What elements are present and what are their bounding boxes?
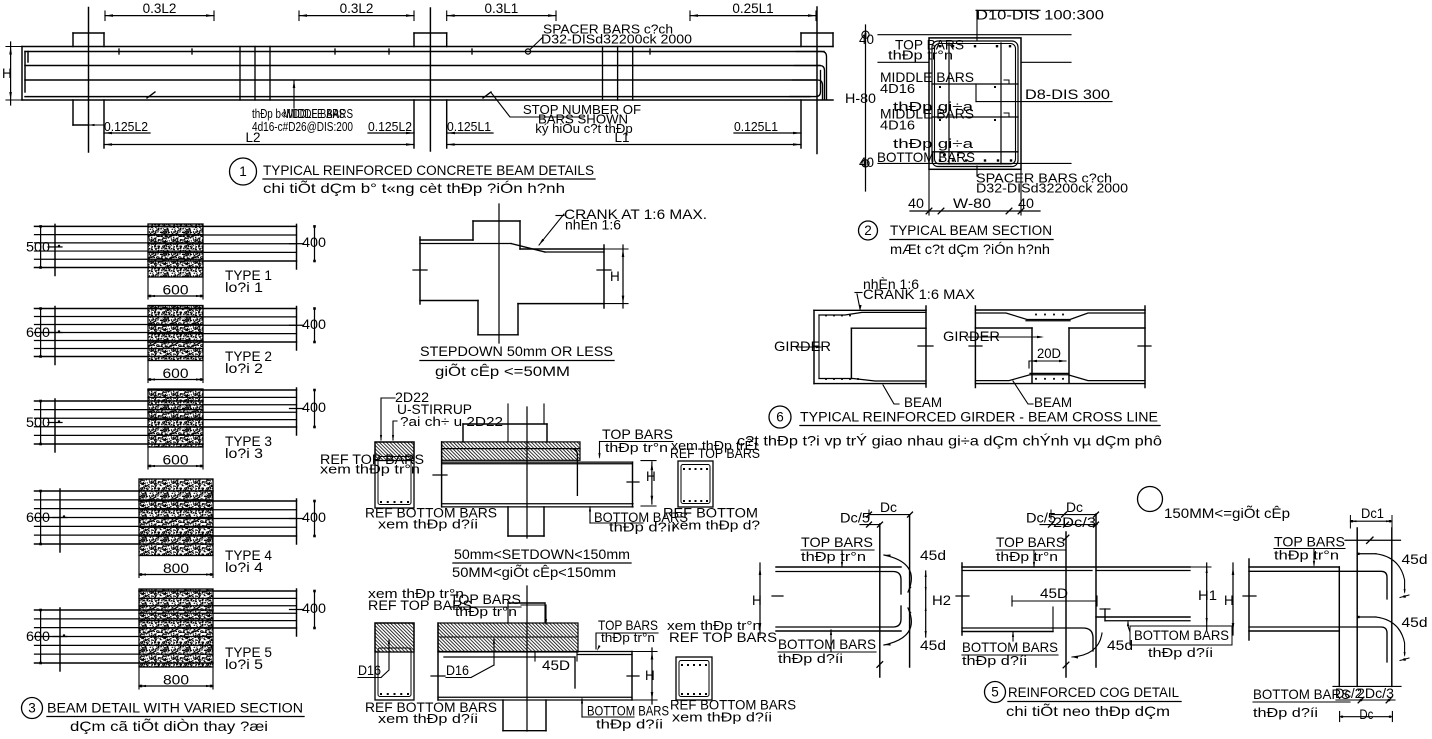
- svg-text:thÐp d?íi: thÐp d?íi: [609, 520, 675, 535]
- svg-text:Dc/5: Dc/5: [1026, 511, 1056, 526]
- svg-text:0.25L1: 0.25L1: [732, 1, 773, 16]
- svg-text:thÐp d?íi: thÐp d?íi: [962, 653, 1027, 668]
- svg-text:0.125L2: 0.125L2: [104, 119, 148, 134]
- svg-text:D32-DISd32200ck 2000: D32-DISd32200ck 2000: [541, 32, 692, 47]
- svg-text:600: 600: [26, 510, 50, 525]
- svg-text:0.3L2: 0.3L2: [143, 1, 177, 16]
- svg-text:2: 2: [864, 223, 872, 238]
- svg-text:BOTTOM BARS: BOTTOM BARS: [877, 150, 975, 165]
- svg-text:BEAM: BEAM: [904, 395, 942, 410]
- svg-text:Dc/5: Dc/5: [840, 511, 870, 526]
- svg-text:thÐp gi÷a: thÐp gi÷a: [893, 136, 974, 151]
- svg-text:thÐp tr°n: thÐp tr°n: [888, 48, 953, 63]
- svg-text:TYPICAL REINFORCED CONCRETE BE: TYPICAL REINFORCED CONCRETE BEAM DETAILS: [263, 163, 594, 179]
- svg-text:Dc: Dc: [1359, 707, 1373, 722]
- svg-text:4D16: 4D16: [880, 81, 915, 96]
- svg-text:4D16: 4D16: [880, 118, 915, 133]
- svg-text:2Dc/3: 2Dc/3: [1053, 515, 1096, 530]
- svg-text:xem thÐp d?: xem thÐp d?: [672, 518, 760, 533]
- svg-text:500: 500: [26, 415, 50, 430]
- svg-text:800: 800: [163, 561, 189, 576]
- svg-text:thÐp d?íi: thÐp d?íi: [596, 717, 663, 732]
- svg-text:lo?i 5: lo?i 5: [225, 657, 263, 672]
- svg-text:H: H: [752, 593, 762, 608]
- svg-text:Dc1: Dc1: [1361, 506, 1384, 521]
- svg-text:6: 6: [776, 410, 784, 425]
- svg-text:H2: H2: [932, 593, 951, 608]
- svg-text:600: 600: [163, 453, 189, 468]
- svg-text:400: 400: [302, 317, 326, 332]
- svg-text:400: 400: [302, 235, 326, 250]
- svg-text:STEPDOWN 50mm OR LESS: STEPDOWN 50mm OR LESS: [420, 344, 613, 360]
- svg-text:5: 5: [991, 685, 999, 700]
- svg-text:45D: 45D: [1040, 586, 1068, 601]
- svg-text:D8-DIS 300: D8-DIS 300: [1025, 87, 1110, 102]
- svg-text:3: 3: [28, 701, 36, 716]
- svg-text:BOTTOM BARS: BOTTOM BARS: [778, 637, 876, 652]
- svg-text:TYPICAL BEAM SECTION: TYPICAL BEAM SECTION: [890, 223, 1052, 239]
- svg-text:xem thÐp tr°n: xem thÐp tr°n: [320, 462, 420, 477]
- svg-text:thÐp d?íi: thÐp d?íi: [1253, 705, 1318, 720]
- svg-text:H1: H1: [1198, 588, 1217, 603]
- svg-text:H-80: H-80: [845, 91, 876, 106]
- svg-text:ký hiÖu c?t thÐp: ký hiÖu c?t thÐp: [535, 121, 632, 136]
- svg-text:600: 600: [163, 283, 189, 298]
- svg-text:dÇm cã tiÕt diÒn thay ?æi: dÇm cã tiÕt diÒn thay ?æi: [70, 718, 268, 734]
- svg-text:BOTTOM BARS: BOTTOM BARS: [1134, 628, 1229, 643]
- svg-text:TOP BARS: TOP BARS: [996, 535, 1065, 550]
- svg-text:45d: 45d: [920, 548, 946, 563]
- svg-text:thÐp tr°n: thÐp tr°n: [1274, 548, 1339, 563]
- svg-text:thÐp tr°n: thÐp tr°n: [601, 630, 655, 645]
- svg-text:xem thÐp d?íi: xem thÐp d?íi: [378, 711, 478, 726]
- svg-text:0.125L1: 0.125L1: [447, 119, 491, 134]
- svg-text:?ai ch÷ u 2D22: ?ai ch÷ u 2D22: [400, 414, 503, 429]
- svg-text:D10-DIS 100:300: D10-DIS 100:300: [976, 8, 1104, 23]
- svg-text:c?t thÐp t?i vp trÝ giao nhau: c?t thÐp t?i vp trÝ giao nhau gi÷a dÇm c…: [737, 433, 1162, 449]
- svg-text:BEAM: BEAM: [1034, 395, 1072, 410]
- svg-text:thÐp tr°n: thÐp tr°n: [801, 549, 866, 564]
- svg-text:BEAM DETAIL WITH VARIED SECTIO: BEAM DETAIL WITH VARIED SECTION: [47, 701, 303, 717]
- svg-text:50MM<giÕt cÊp<150mm: 50MM<giÕt cÊp<150mm: [452, 564, 616, 580]
- svg-text:H: H: [646, 469, 656, 484]
- svg-text:H: H: [2, 66, 12, 81]
- svg-text:thÐp d?íi: thÐp d?íi: [1148, 645, 1213, 660]
- svg-text:thÐp d?íi: thÐp d?íi: [778, 651, 843, 666]
- svg-text:H: H: [610, 269, 620, 284]
- svg-text:40: 40: [859, 32, 874, 47]
- svg-text:lo?i 3: lo?i 3: [225, 446, 263, 461]
- svg-text:D16: D16: [358, 663, 381, 678]
- svg-text:xem thÐp d?íi: xem thÐp d?íi: [378, 517, 478, 532]
- svg-text:0.3L2: 0.3L2: [340, 1, 374, 16]
- svg-text:4d16-c#D26@DIS:200: 4d16-c#D26@DIS:200: [252, 119, 353, 134]
- svg-text:400: 400: [302, 510, 326, 525]
- svg-text:0.125L2: 0.125L2: [368, 119, 412, 134]
- svg-text:Dc: Dc: [880, 500, 897, 515]
- svg-text:45D: 45D: [542, 658, 570, 673]
- svg-text:50mm<SETDOWN<150mm: 50mm<SETDOWN<150mm: [454, 547, 630, 563]
- svg-text:Dc: Dc: [1066, 500, 1083, 515]
- svg-text:20D: 20D: [1037, 346, 1061, 361]
- svg-text:REINFORCED COG DETAIL: REINFORCED COG DETAIL: [1008, 685, 1179, 701]
- svg-text:45d: 45d: [1402, 552, 1428, 567]
- svg-text:CRANK 1:6 MAX: CRANK 1:6 MAX: [863, 287, 975, 302]
- svg-text:thÐp tr°n: thÐp tr°n: [996, 549, 1058, 564]
- svg-text:500: 500: [26, 239, 50, 254]
- svg-text:REF TOP BARS: REF TOP BARS: [669, 630, 777, 645]
- svg-text:40: 40: [859, 155, 874, 170]
- svg-text:giÕt cÊp <=50MM: giÕt cÊp <=50MM: [435, 363, 570, 379]
- svg-text:0.125L1: 0.125L1: [734, 119, 778, 134]
- svg-text:600: 600: [163, 366, 189, 381]
- svg-text:400: 400: [302, 601, 326, 616]
- svg-text:W-80: W-80: [953, 196, 991, 211]
- svg-text:D16: D16: [446, 663, 469, 678]
- svg-text:TOP BARS: TOP BARS: [801, 535, 873, 550]
- svg-text:REF TOP BARS: REF TOP BARS: [368, 598, 472, 613]
- svg-text:600: 600: [26, 325, 50, 340]
- svg-text:lo?i 4: lo?i 4: [225, 560, 263, 575]
- svg-text:H: H: [645, 668, 655, 683]
- svg-text:chi tiÕt dÇm b° t«ng cèt thÐp: chi tiÕt dÇm b° t«ng cèt thÐp ?iÓn h?nh: [263, 180, 565, 196]
- svg-text:600: 600: [26, 629, 50, 644]
- svg-text:xem thÐp d?íi: xem thÐp d?íi: [672, 710, 772, 725]
- svg-text:mÆt c?t dÇm ?iÓn h?nh: mÆt c?t dÇm ?iÓn h?nh: [890, 241, 1050, 257]
- svg-text:nhÈn 1:6: nhÈn 1:6: [565, 218, 621, 233]
- svg-text:45d: 45d: [920, 638, 946, 653]
- svg-text:lo?i 1: lo?i 1: [225, 280, 263, 295]
- svg-text:45d: 45d: [1402, 615, 1428, 630]
- svg-text:40: 40: [1018, 196, 1034, 211]
- svg-text:lo?i 2: lo?i 2: [225, 361, 263, 376]
- svg-text:H: H: [1224, 593, 1234, 608]
- svg-text:150MM<=giÕt cÊp: 150MM<=giÕt cÊp: [1164, 505, 1290, 521]
- svg-text:TYPICAL REINFORCED GIRDER - BE: TYPICAL REINFORCED GIRDER - BEAM CROSS L…: [800, 410, 1158, 426]
- svg-text:800: 800: [163, 673, 189, 688]
- svg-text:40: 40: [908, 196, 924, 211]
- svg-text:400: 400: [302, 400, 326, 415]
- svg-text:1: 1: [239, 164, 247, 179]
- svg-text:D32-DISd32200ck 2000: D32-DISd32200ck 2000: [976, 181, 1128, 196]
- svg-text:chi tiÕt neo thÐp dÇm: chi tiÕt neo thÐp dÇm: [1006, 703, 1170, 719]
- svg-text:0.3L1: 0.3L1: [484, 1, 518, 16]
- svg-text:45d: 45d: [1107, 638, 1133, 653]
- svg-text:thÐp tr°n: thÐp tr°n: [605, 440, 668, 455]
